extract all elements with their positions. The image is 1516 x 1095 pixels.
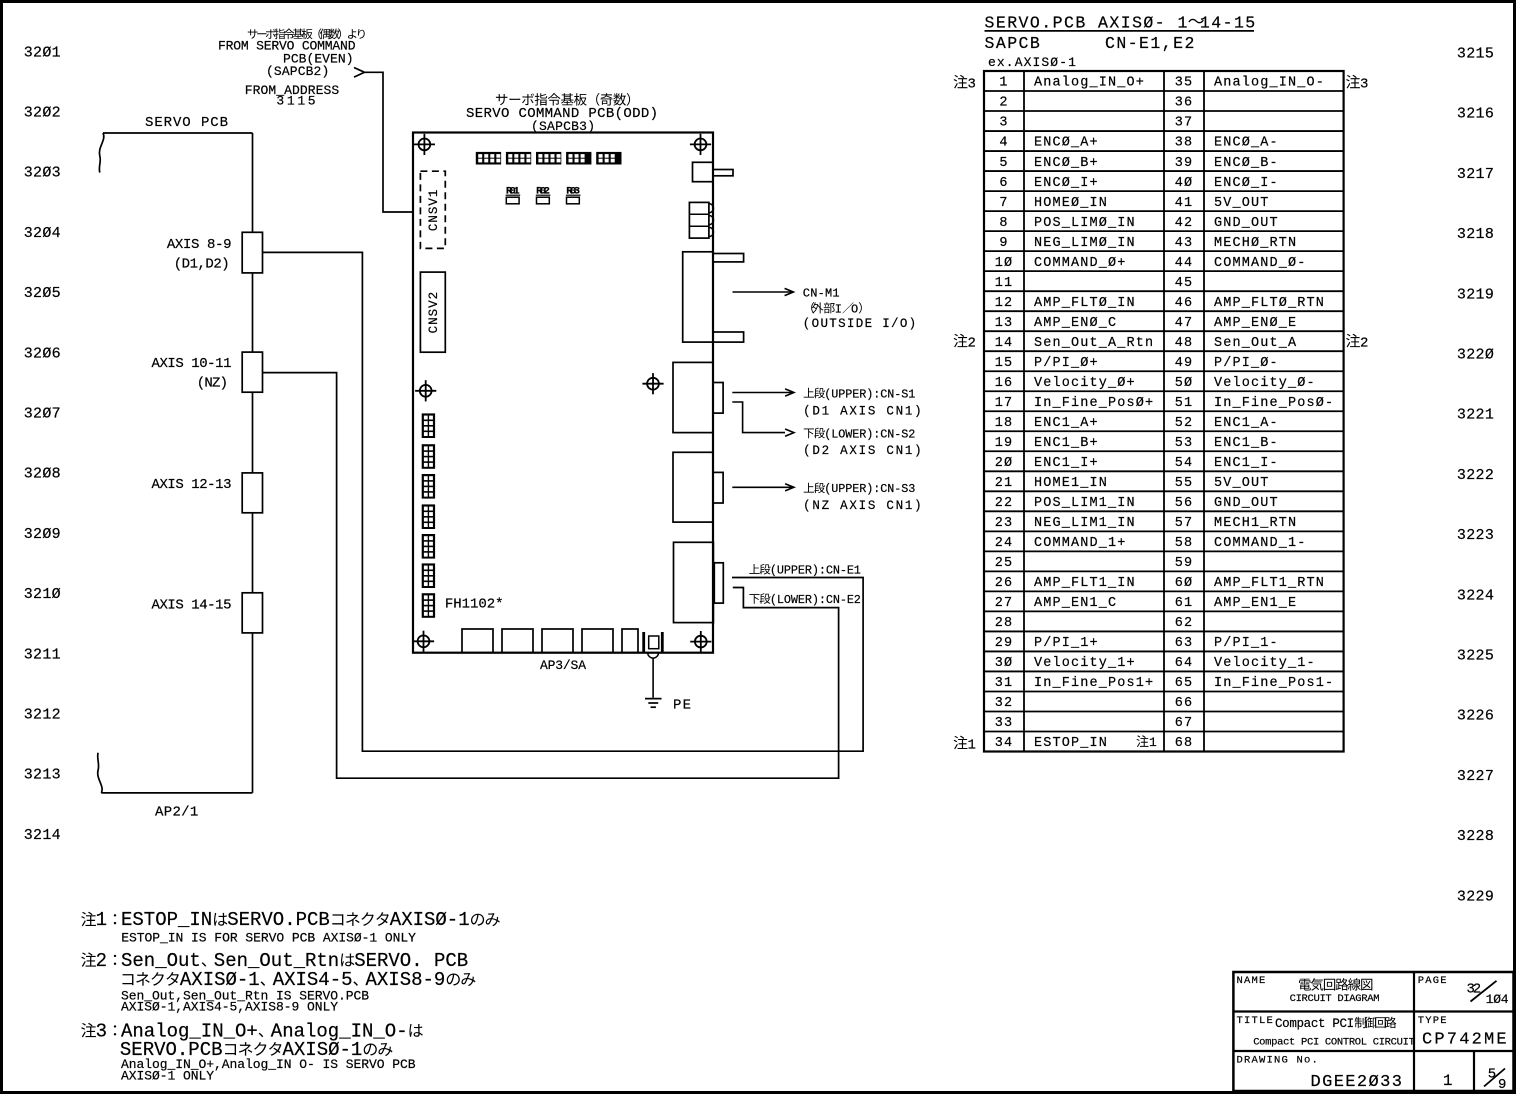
svg-text:AMP_ENØ_C: AMP_ENØ_C — [1034, 316, 1117, 331]
svg-text:3227: 3227 — [1457, 768, 1494, 785]
svg-text:(LOWER):CN-S2: (LOWER):CN-S2 — [824, 427, 915, 441]
svg-text:AMP_FLTØ_IN: AMP_FLTØ_IN — [1034, 296, 1136, 311]
wire to PE ground — [652, 658, 654, 698]
svg-text:AP2/1: AP2/1 — [155, 804, 198, 820]
svg-text:ESTOP_IN IS FOR SERVO PCB AXIS: ESTOP_IN IS FOR SERVO PCB AXISØ-1 ONLY — [121, 931, 416, 946]
svg-text:35: 35 — [1175, 76, 1194, 91]
svg-text:5: 5 — [999, 156, 1008, 171]
label upper CN-S1 — [804, 388, 814, 398]
bottom connector footprint 5 — [622, 629, 638, 653]
svg-text:32: 32 — [995, 696, 1014, 711]
svg-text:32Ø5: 32Ø5 — [24, 285, 61, 302]
svg-text:32Ø8: 32Ø8 — [24, 466, 61, 483]
svg-text:(SAPCB3): (SAPCB3) — [531, 119, 595, 134]
note 1 line japanese — [81, 912, 96, 927]
svg-text:3226: 3226 — [1457, 708, 1494, 725]
svg-text:MECHØ_RTN: MECHØ_RTN — [1214, 236, 1297, 251]
svg-text:3229: 3229 — [1457, 888, 1494, 905]
svg-text:ex.AXISØ-1: ex.AXISØ-1 — [988, 55, 1077, 70]
label upper CN-E1 — [749, 564, 759, 574]
mounting hole mid-right — [642, 373, 663, 394]
wire AXIS 10-11 to CN-E2 — [263, 373, 839, 779]
bottom connector footprint 4 — [582, 629, 613, 653]
svg-text:CP742ME: CP742ME — [1422, 1030, 1509, 1049]
svg-text:1: 1 — [1149, 735, 1157, 750]
svg-text:37: 37 — [1175, 116, 1194, 131]
connector 3-stack — [689, 202, 709, 238]
svg-text:3217: 3217 — [1457, 166, 1494, 183]
dip switch SWL3 — [422, 474, 435, 499]
dip switch SWL6 — [422, 563, 435, 588]
svg-text:3: 3 — [1360, 77, 1368, 93]
svg-text:3228: 3228 — [1457, 828, 1494, 845]
svg-text:COMMAND_1-: COMMAND_1- — [1214, 536, 1307, 551]
mounting hole bottom-left — [413, 631, 434, 652]
arrow to CN-S3 label — [732, 486, 792, 488]
svg-text:AXIS 8-9: AXIS 8-9 — [167, 237, 232, 253]
dip switch SW3 — [536, 152, 561, 165]
svg-text:3211: 3211 — [24, 646, 61, 663]
connector small top-right — [693, 162, 714, 181]
svg-text:MECH1_RTN: MECH1_RTN — [1214, 516, 1297, 531]
svg-text:48: 48 — [1175, 336, 1194, 351]
svg-text:ENC1_B+: ENC1_B+ — [1034, 436, 1099, 451]
connector CN-S1/S2 — [673, 362, 713, 432]
svg-text:(D1,D2): (D1,D2) — [174, 256, 230, 272]
svg-text:3215: 3215 — [1457, 46, 1494, 63]
svg-text:AP3/SA: AP3/SA — [540, 658, 586, 673]
svg-text:3: 3 — [968, 77, 976, 93]
svg-text:In_Fine_Pos1+: In_Fine_Pos1+ — [1034, 676, 1154, 691]
svg-text:3Ø: 3Ø — [995, 656, 1014, 671]
svg-text:(LOWER):CN-E2: (LOWER):CN-E2 — [770, 593, 861, 607]
svg-text:29: 29 — [995, 636, 1014, 651]
svg-text:P/PI_1+: P/PI_1+ — [1034, 636, 1099, 651]
svg-text:21: 21 — [995, 476, 1014, 491]
svg-text:64: 64 — [1175, 656, 1194, 671]
svg-text:46: 46 — [1175, 296, 1194, 311]
svg-text:AMP_EN1_E: AMP_EN1_E — [1214, 596, 1297, 611]
svg-text:O: O — [851, 302, 858, 316]
wire bus vertical — [252, 133, 254, 793]
svg-text:ENCØ_A+: ENCØ_A+ — [1034, 136, 1099, 151]
svg-text:28: 28 — [995, 616, 1014, 631]
svg-text:12: 12 — [995, 296, 1014, 311]
svg-text:I: I — [835, 302, 842, 316]
svg-text:44: 44 — [1175, 256, 1194, 271]
svg-text:321Ø: 321Ø — [24, 586, 61, 603]
svg-text:32Ø9: 32Ø9 — [24, 526, 61, 543]
svg-text:2: 2 — [96, 950, 107, 972]
svg-text:In_Fine_PosØ+: In_Fine_PosØ+ — [1034, 396, 1154, 411]
svg-text:11: 11 — [995, 276, 1014, 291]
note mark 3 right of table — [1346, 75, 1360, 89]
svg-text:POS_LIM1_IN: POS_LIM1_IN — [1034, 496, 1136, 511]
svg-text:3218: 3218 — [1457, 226, 1494, 243]
svg-text:AMP_FLTØ_RTN: AMP_FLTØ_RTN — [1214, 296, 1325, 311]
svg-text:NAME: NAME — [1237, 975, 1267, 987]
PCB board outline SERVO COMMAND PCB(ODD) — [413, 133, 713, 653]
svg-text:COMMAND_1+: COMMAND_1+ — [1034, 536, 1127, 551]
svg-text:R01: R01 — [506, 186, 520, 198]
svg-text:GND_OUT: GND_OUT — [1214, 216, 1279, 231]
mounting hole bottom-right — [690, 631, 711, 652]
dip switch SW4 — [566, 152, 591, 165]
wire bus bottom line — [101, 792, 252, 794]
svg-text:9: 9 — [999, 236, 1008, 251]
svg-text:23: 23 — [995, 516, 1014, 531]
mounting hole top-left — [414, 134, 435, 155]
pin table grid — [984, 71, 1344, 752]
note mark 1 in table — [1136, 735, 1148, 747]
svg-text:27: 27 — [995, 596, 1014, 611]
dip switch SW2 — [506, 152, 531, 165]
svg-text:AMP_FLT1_RTN: AMP_FLT1_RTN — [1214, 576, 1325, 591]
svg-text:Compact PCI: Compact PCI — [1275, 1017, 1354, 1031]
svg-text:ENC1_I-: ENC1_I- — [1214, 456, 1279, 471]
svg-text:25: 25 — [995, 556, 1014, 571]
svg-text:9: 9 — [1498, 1077, 1506, 1093]
svg-text:6: 6 — [999, 176, 1008, 191]
svg-text:22: 22 — [995, 496, 1014, 511]
svg-text:Velocity_1-: Velocity_1- — [1214, 656, 1316, 671]
svg-text:8: 8 — [999, 216, 1008, 231]
note mark 2 left of table — [954, 334, 968, 348]
svg-text:In_Fine_PosØ-: In_Fine_PosØ- — [1214, 396, 1334, 411]
svg-text:1Ø4: 1Ø4 — [1486, 992, 1509, 1007]
connector CN-S3 — [673, 452, 713, 522]
svg-text:Analog_IN_O+: Analog_IN_O+ — [1034, 76, 1145, 91]
svg-text:63: 63 — [1175, 636, 1194, 651]
svg-text:1Ø: 1Ø — [995, 256, 1014, 271]
svg-text:4Ø: 4Ø — [1175, 176, 1194, 191]
svg-text:2: 2 — [999, 96, 1008, 111]
svg-text:(UPPER):CN-S1: (UPPER):CN-S1 — [824, 387, 915, 401]
connector AXIS 12-13 — [242, 473, 262, 513]
svg-text:56: 56 — [1175, 496, 1194, 511]
svg-text:DGEE2Ø33: DGEE2Ø33 — [1311, 1073, 1404, 1092]
svg-text:3224: 3224 — [1457, 587, 1494, 604]
svg-text:AXIS 10-11: AXIS 10-11 — [152, 356, 232, 372]
svg-text:3221: 3221 — [1457, 407, 1494, 424]
bottom connector footprint 2 — [502, 629, 533, 653]
svg-text:GND_OUT: GND_OUT — [1214, 496, 1279, 511]
svg-text:AXIS 14-15: AXIS 14-15 — [152, 598, 232, 614]
svg-text:43: 43 — [1175, 236, 1194, 251]
arrowhead from SAPCB2 — [354, 68, 365, 78]
svg-text:32Ø6: 32Ø6 — [24, 345, 61, 362]
svg-text:P/PI_Ø+: P/PI_Ø+ — [1034, 356, 1099, 371]
svg-text:COMMAND_Ø+: COMMAND_Ø+ — [1034, 256, 1127, 271]
svg-text:DRAWING No.: DRAWING No. — [1237, 1054, 1320, 1066]
svg-text:POS_LIMØ_IN: POS_LIMØ_IN — [1034, 216, 1136, 231]
svg-text:NEG_LIM1_IN: NEG_LIM1_IN — [1034, 516, 1136, 531]
svg-text:SERVO.PCB: SERVO.PCB — [227, 909, 330, 931]
connector CNSV1 (dashed) — [420, 171, 445, 248]
svg-text:1: 1 — [968, 737, 976, 753]
svg-text:(NZ): (NZ) — [197, 376, 228, 392]
svg-text:Sen_Out_A_Rtn: Sen_Out_A_Rtn — [1034, 336, 1154, 351]
svg-text:51: 51 — [1175, 396, 1194, 411]
svg-text:68: 68 — [1175, 736, 1194, 751]
svg-text:19: 19 — [995, 436, 1014, 451]
label lower CN-S2 — [804, 428, 814, 438]
svg-text:PAGE: PAGE — [1418, 975, 1448, 987]
svg-text:39: 39 — [1175, 156, 1194, 171]
svg-text:3: 3 — [96, 1020, 107, 1042]
svg-text:34: 34 — [995, 736, 1014, 751]
svg-text:17: 17 — [995, 396, 1014, 411]
svg-text:HOME1_IN: HOME1_IN — [1034, 476, 1108, 491]
svg-text:24: 24 — [995, 536, 1014, 551]
svg-text:Velocity_Ø-: Velocity_Ø- — [1214, 376, 1316, 391]
svg-text:1: 1 — [999, 76, 1008, 91]
note 2 line japanese 2 — [122, 974, 133, 985]
PE earth connector — [642, 632, 645, 653]
cable break squiggle top — [99, 133, 103, 173]
dip switch SWL4 — [422, 504, 435, 529]
svg-text:32Ø7: 32Ø7 — [24, 406, 61, 423]
svg-text:18: 18 — [995, 416, 1014, 431]
svg-text:36: 36 — [1175, 96, 1194, 111]
note 2 line japanese 1 — [81, 952, 96, 967]
svg-text:P/PI_Ø-: P/PI_Ø- — [1214, 356, 1279, 371]
svg-text:AXIS8-9: AXIS8-9 — [366, 969, 446, 991]
svg-text:55: 55 — [1175, 476, 1194, 491]
svg-text:CN-E1,E2: CN-E1,E2 — [1105, 34, 1196, 53]
svg-text:(UPPER):CN-E1: (UPPER):CN-E1 — [770, 564, 861, 578]
connector CNSV2 — [420, 272, 445, 352]
connector CN-M1 — [683, 252, 713, 342]
connector CN-E1/E2 — [674, 542, 714, 622]
svg-text:ENCØ_I-: ENCØ_I- — [1214, 176, 1279, 191]
svg-text:4: 4 — [999, 136, 1008, 151]
label (outside I/O) japanese — [811, 302, 814, 313]
wire AXIS 8-9 to CN-E1 — [263, 252, 864, 751]
svg-text:53: 53 — [1175, 436, 1194, 451]
svg-text:14-15: 14-15 — [1200, 14, 1257, 33]
dip switch SWL1 — [422, 413, 435, 438]
svg-text:32Ø2: 32Ø2 — [24, 105, 61, 122]
note 3 line japanese 1 — [81, 1023, 96, 1038]
svg-text:P/PI_1-: P/PI_1- — [1214, 636, 1279, 651]
svg-text:CIRCUIT DIAGRAM: CIRCUIT DIAGRAM — [1290, 993, 1380, 1005]
svg-text:3: 3 — [999, 116, 1008, 131]
label servo command pcb odd — [496, 94, 508, 105]
svg-text:58: 58 — [1175, 536, 1194, 551]
svg-text:ENCØ_I+: ENCØ_I+ — [1034, 176, 1099, 191]
svg-text:5V_OUT: 5V_OUT — [1214, 476, 1270, 491]
svg-text:322Ø: 322Ø — [1457, 347, 1494, 364]
dip switch SWL7 — [422, 593, 435, 618]
svg-text:Compact PCI CONTROL CIRCUIT: Compact PCI CONTROL CIRCUIT — [1253, 1037, 1415, 1049]
svg-text:ENCØ_A-: ENCØ_A- — [1214, 136, 1279, 151]
svg-text:3225: 3225 — [1457, 648, 1494, 665]
dip switch SW5 — [596, 152, 621, 165]
svg-text:5Ø: 5Ø — [1175, 376, 1194, 391]
label FROM SERVO COMMAND PCB(EVEN) (SAPCB2) — [248, 29, 258, 38]
svg-text:61: 61 — [1175, 596, 1194, 611]
svg-text:59: 59 — [1175, 556, 1194, 571]
svg-text:AXIS 12-13: AXIS 12-13 — [152, 477, 232, 493]
svg-text:ENC1_B-: ENC1_B- — [1214, 436, 1279, 451]
svg-text:AMP_FLT1_IN: AMP_FLT1_IN — [1034, 576, 1136, 591]
svg-text:PE: PE — [673, 698, 691, 714]
svg-text:54: 54 — [1175, 456, 1194, 471]
svg-text:52: 52 — [1175, 416, 1194, 431]
svg-text:32Ø1: 32Ø1 — [24, 44, 61, 61]
svg-text:3216: 3216 — [1457, 106, 1494, 123]
svg-text:57: 57 — [1175, 516, 1194, 531]
svg-text:AXISØ-1: AXISØ-1 — [390, 909, 470, 931]
svg-text:ENC1_A-: ENC1_A- — [1214, 416, 1279, 431]
svg-text:14: 14 — [995, 336, 1014, 351]
svg-text:66: 66 — [1175, 696, 1194, 711]
svg-text:67: 67 — [1175, 716, 1194, 731]
svg-text:16: 16 — [995, 376, 1014, 391]
svg-text:41: 41 — [1175, 196, 1194, 211]
svg-text:Velocity_Ø+: Velocity_Ø+ — [1034, 376, 1136, 391]
note mark 2 right of table — [1346, 334, 1360, 348]
svg-text:49: 49 — [1175, 356, 1194, 371]
svg-text:FH1102*: FH1102* — [445, 596, 504, 612]
svg-text:CNSV2: CNSV2 — [427, 291, 441, 334]
ground symbol PE — [645, 698, 662, 700]
bottom connector footprint 3 — [542, 629, 573, 653]
svg-text:ESTOP_IN: ESTOP_IN — [121, 909, 212, 931]
connector AXIS 14-15 — [242, 593, 262, 633]
svg-text:45: 45 — [1175, 276, 1194, 291]
svg-text:7: 7 — [999, 196, 1008, 211]
svg-text:32Ø4: 32Ø4 — [24, 225, 61, 242]
svg-text:AMP_ENØ_E: AMP_ENØ_E — [1214, 316, 1297, 331]
svg-text:3213: 3213 — [24, 767, 61, 784]
svg-text:3214: 3214 — [24, 827, 61, 844]
svg-text:31: 31 — [995, 676, 1014, 691]
svg-text:TYPE: TYPE — [1418, 1015, 1448, 1027]
svg-text:SERVO.PCB AXISØ- 1: SERVO.PCB AXISØ- 1 — [985, 14, 1189, 33]
svg-text:13: 13 — [995, 316, 1014, 331]
svg-text:6Ø: 6Ø — [1175, 576, 1194, 591]
label lower CN-E2 — [749, 594, 759, 604]
title block frame — [1233, 972, 1513, 1091]
svg-text:ENCØ_B+: ENCØ_B+ — [1034, 156, 1099, 171]
svg-text:26: 26 — [995, 576, 1014, 591]
svg-text:3223: 3223 — [1457, 527, 1494, 544]
svg-text:AXISØ-1 ONLY: AXISØ-1 ONLY — [121, 1069, 214, 1084]
wire servo pcb top line — [103, 132, 253, 134]
svg-text:SAPCB: SAPCB — [985, 34, 1042, 53]
svg-text:TITLE: TITLE — [1237, 1015, 1275, 1027]
svg-text:42: 42 — [1175, 216, 1194, 231]
svg-text:R03: R03 — [566, 186, 580, 198]
arrow to CN-S1 label — [732, 392, 792, 394]
label upper CN-S3 — [804, 483, 814, 493]
note mark 3 left of table — [954, 75, 968, 89]
svg-text:32Ø3: 32Ø3 — [24, 165, 61, 182]
svg-text:65: 65 — [1175, 676, 1194, 691]
svg-text:2: 2 — [1360, 335, 1368, 351]
svg-text:ESTOP_IN: ESTOP_IN — [1034, 736, 1108, 751]
svg-text:5V_OUT: 5V_OUT — [1214, 196, 1270, 211]
svg-text:R02: R02 — [536, 186, 550, 198]
svg-text:(UPPER):CN-S3: (UPPER):CN-S3 — [824, 482, 915, 496]
svg-text:AMP_EN1_C: AMP_EN1_C — [1034, 596, 1117, 611]
svg-text:38: 38 — [1175, 136, 1194, 151]
dip switch SWL5 — [422, 534, 435, 559]
mounting hole top-right — [690, 134, 711, 155]
cable break squiggle bottom — [98, 753, 102, 793]
svg-text:(SAPCB2): (SAPCB2) — [266, 64, 329, 79]
svg-text:15: 15 — [995, 356, 1014, 371]
svg-text:3219: 3219 — [1457, 286, 1494, 303]
arrow to CN-M1 label — [733, 291, 792, 293]
svg-text:CNSV1: CNSV1 — [427, 189, 441, 232]
svg-text:47: 47 — [1175, 316, 1194, 331]
svg-text:AXISØ-1,AXIS4-5,AXIS8-9 ONLY: AXISØ-1,AXIS4-5,AXIS8-9 ONLY — [121, 1000, 338, 1015]
svg-text:Velocity_1+: Velocity_1+ — [1034, 656, 1136, 671]
svg-text:3222: 3222 — [1457, 467, 1494, 484]
svg-text:In_Fine_Pos1-: In_Fine_Pos1- — [1214, 676, 1334, 691]
svg-text:HOMEØ_IN: HOMEØ_IN — [1034, 196, 1108, 211]
bottom connector footprint 1 — [462, 629, 493, 653]
svg-text:2: 2 — [968, 335, 976, 351]
dip switch SWL2 — [422, 444, 435, 469]
svg-text:1: 1 — [96, 909, 107, 931]
svg-text:Analog_IN_O-: Analog_IN_O- — [1214, 76, 1325, 91]
svg-text:CN-M1: CN-M1 — [803, 286, 840, 300]
svg-text:62: 62 — [1175, 616, 1194, 631]
svg-text:3212: 3212 — [24, 707, 61, 724]
connector AXIS 10-11 (NZ) — [242, 352, 262, 392]
svg-text:1: 1 — [1443, 1072, 1453, 1090]
dip switch SW1 — [476, 152, 501, 165]
svg-text:2Ø: 2Ø — [995, 456, 1014, 471]
svg-text:33: 33 — [995, 716, 1014, 731]
svg-text:COMMAND_Ø-: COMMAND_Ø- — [1214, 256, 1307, 271]
svg-text:NEG_LIMØ_IN: NEG_LIMØ_IN — [1034, 236, 1136, 251]
connector AXIS 8-9 (D1,D2) — [242, 232, 262, 273]
note mark 1 left of table — [954, 736, 968, 750]
svg-text:(OUTSIDE I/O): (OUTSIDE I/O) — [803, 317, 916, 331]
svg-text:ENC1_I+: ENC1_I+ — [1034, 456, 1099, 471]
svg-text:ENCØ_B-: ENCØ_B- — [1214, 156, 1279, 171]
wire elbow to CN-S2 — [732, 402, 785, 433]
mounting hole mid-left — [415, 380, 436, 401]
wire from SAPCB2 to CNSV1 — [365, 72, 414, 212]
svg-text:SERVO PCB: SERVO PCB — [145, 115, 228, 131]
svg-text:ENC1_A+: ENC1_A+ — [1034, 416, 1099, 431]
svg-text:Sen_Out_A: Sen_Out_A — [1214, 336, 1297, 351]
